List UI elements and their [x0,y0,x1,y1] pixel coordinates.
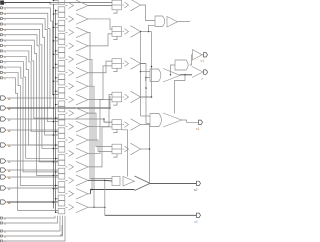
input pin M1 [1,106,6,110]
input pin I5 [0,28,2,30]
wire A14 output [88,179,105,181]
gate B7 [112,177,120,186]
output pin P5 [197,213,201,217]
gate A2 [53,13,58,15]
input pin M5 [1,159,6,163]
wire down from node [175,75,186,114]
wire U5 output [182,120,199,122]
input pin I4 [0,23,2,25]
input pin Q2 [0,230,2,232]
wire net M3 [7,129,58,131]
wire net M1 [7,107,110,109]
wire A1 output [88,5,112,7]
wire net to B7 [122,130,128,177]
wire net M7 [7,176,58,178]
wire net Q0 [3,216,55,218]
gate A6 [53,67,58,69]
input pin I8 [0,45,2,47]
gate R6 [135,176,151,191]
input pin M6 [1,168,6,172]
gate U2 [150,69,161,82]
wire to U2 in2 [146,77,150,79]
svg-text:s0: s0 [194,188,198,192]
gate U5 [150,114,161,127]
input pin Q3 [0,235,2,237]
wire net Q1 [3,216,58,223]
input pin I6 [0,34,2,36]
gate U3 [175,60,188,70]
wire U3 to U3b [190,55,193,65]
wire net Q3 [3,216,63,236]
wire B4 output [141,96,152,98]
input pin I0 [1,1,4,4]
svg-text:n0: n0 [194,220,198,224]
input pin I7 [0,39,2,41]
wire to U3 [171,65,176,75]
svg-text:o1: o1 [201,59,205,63]
output pin P1 [202,54,204,56]
wire bottom net [104,181,106,215]
wire A13 output [88,127,112,167]
wire A4 output [88,34,112,46]
gate A10 [53,121,58,123]
svg-text:s1: s1 [196,127,200,131]
wire A11 output [88,140,112,151]
input pin M3 [1,128,6,132]
wire net IN0 [3,2,50,4]
buffer U3b [193,50,203,61]
gate A3 [53,26,58,28]
gate B3 [112,59,122,69]
output pin P2 [204,70,208,74]
wire A5 output [88,59,92,189]
wire net IN2 [3,13,59,108]
wire net Q4 [3,216,65,241]
gate A4 [53,40,58,42]
wire B1 to U1 [141,5,156,21]
wire A7 output [88,86,105,207]
input pin I1 [0,7,2,9]
input pin I11 [0,61,2,63]
wire net M8 [7,187,58,189]
input pin I13 [0,71,2,73]
wire net M6 [7,169,58,171]
input pin M0 [1,96,6,100]
wire net M0 [7,97,58,99]
wire A6 output [88,61,112,73]
wire B2 to U1 [141,31,152,33]
wire B6 output [141,148,150,150]
input pin I12 [0,66,2,68]
gate A16 [53,201,58,203]
wire net IN3 [3,19,59,122]
input pin I10 [0,55,2,57]
input pin I9 [0,50,2,52]
wire net IN6 [3,35,59,162]
input pin M7 [1,175,6,179]
gate A11 [53,134,58,136]
input pin M2 [1,117,6,121]
wire U2 input [140,71,142,73]
gate B5 [112,120,122,130]
wire A9 output [88,113,112,147]
wire stray segment [60,225,62,235]
wire R6 output [150,182,197,184]
gate A1 [53,0,58,2]
gate A7 [53,80,58,82]
gate U4 [192,67,203,78]
wire A3 output [88,32,112,178]
wire A2 output [88,19,112,29]
gate A13 [53,161,58,163]
gate A9 [53,107,58,109]
gate U1 [155,16,165,27]
wire A8 output [88,66,112,100]
output pin P3 [199,120,203,124]
bus vertical V1 [52,4,54,209]
wire B3 output [141,63,147,65]
wire U1 output [178,21,191,23]
wire A10 output [88,95,112,127]
wire B5 output [141,125,150,184]
vertical net V4 [140,32,142,117]
gate A5 [53,53,58,55]
wire net IN11 [3,62,59,159]
wire net Q2 [3,216,60,231]
gate B2 [112,27,122,37]
wire A12 output [88,99,112,153]
gate B6 [112,144,122,154]
wire A15 output [88,193,91,195]
wire net IN14 [3,78,59,211]
wire net M9 [7,201,58,203]
wire net M4 [7,144,58,146]
wire net IN4 [3,24,59,135]
wire A16 output [88,206,105,208]
gate A8 [53,94,58,96]
buffer B7b [123,177,135,187]
vertical net V3 [151,32,153,98]
wire net IN10 [3,56,59,145]
wire net M5 [7,160,58,162]
input pin M9 [1,200,6,204]
wire net to U5 in2 [146,123,150,125]
bus vertical V2 [55,10,57,213]
output pin P4 [197,181,201,185]
wire net IN1 [3,8,59,95]
buffer U1b [167,17,178,28]
wire net IN5 [3,29,59,148]
input pin M8 [1,186,6,190]
input pin Q1 [0,222,2,224]
wire net IN8 [3,46,59,119]
input pin Q4 [0,240,2,242]
gate A15 [53,188,58,190]
wire U2 output [180,74,192,76]
wire net IN9 [3,51,59,132]
wire net M2 [7,118,104,120]
input pin Q0 [0,217,2,219]
wire net to U5 in1 [141,115,151,117]
wire net IN12 [3,67,59,172]
gate B1 [112,0,122,10]
gate A12 [53,147,58,149]
input pin I2 [0,12,2,14]
wire net IN7 [3,40,59,175]
input pin I14 [0,77,2,79]
wire net IN13 [3,72,59,185]
gate A14 [53,174,58,176]
input pin M4 [1,143,6,147]
input pin I3 [0,18,2,20]
gate B4 [112,92,122,102]
svg-text:n: n [202,77,204,81]
